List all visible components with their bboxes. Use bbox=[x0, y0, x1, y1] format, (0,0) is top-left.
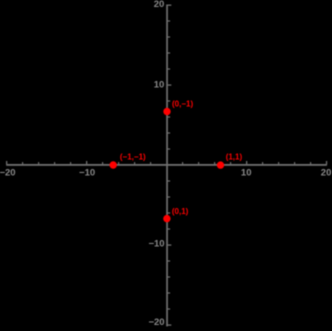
svg-text:−20: −20 bbox=[0, 168, 16, 179]
svg-text:−20: −20 bbox=[148, 317, 164, 328]
x-axis line bbox=[6, 164, 327, 166]
svg-text:10: 10 bbox=[241, 168, 252, 179]
point top (0,-1) bbox=[163, 108, 170, 115]
y-axis ticks bbox=[168, 5, 172, 326]
svg-text:(−1,−1): (−1,−1) bbox=[120, 152, 146, 161]
point bottom (0,1) bbox=[163, 215, 170, 222]
svg-text:(0,−1): (0,−1) bbox=[172, 99, 193, 108]
svg-text:20: 20 bbox=[154, 0, 165, 10]
svg-text:20: 20 bbox=[321, 168, 332, 179]
x-axis ticks bbox=[6, 161, 327, 165]
y-axis line bbox=[166, 5, 168, 327]
svg-text:(1,1): (1,1) bbox=[226, 153, 243, 162]
svg-text:−10: −10 bbox=[148, 239, 164, 250]
svg-text:(0,1): (0,1) bbox=[172, 207, 189, 216]
point left (-1,-1) bbox=[110, 161, 117, 168]
svg-text:−10: −10 bbox=[79, 168, 95, 179]
point right (1,1) bbox=[217, 161, 224, 168]
svg-text:10: 10 bbox=[154, 80, 165, 91]
